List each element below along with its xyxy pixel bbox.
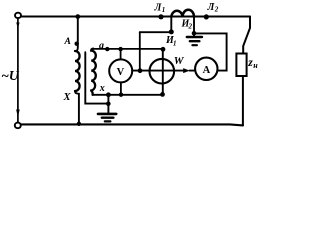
arrow current into ammeter (183, 68, 190, 73)
node A-feed junction on top wire (75, 14, 80, 19)
svg-text:2: 2 (214, 6, 219, 14)
svg-text:X: X (63, 92, 72, 103)
wire bottom horizontal (21, 124, 243, 125)
arrow current direction lower-left (16, 110, 20, 118)
node voltmeter bottom junction (119, 93, 123, 97)
node ground tee on x wire (106, 92, 111, 97)
node wattmeter current-left junction (138, 68, 143, 73)
node I2 junction dot (192, 31, 197, 36)
arrow current direction upper-left (16, 23, 19, 29)
node X bottom junction (77, 122, 81, 126)
transformer T1 secondary winding a-x (91, 49, 96, 95)
wire wattmeter current line inside (150, 70, 175, 72)
wire X lead to bottom wire (75, 91, 79, 124)
wire top horizontal (22, 15, 250, 17)
ground middle (98, 113, 116, 116)
wire x horizontal (93, 94, 163, 96)
wire I1 drop from CT (170, 17, 172, 32)
svg-text:н: н (253, 61, 258, 70)
wire I2 drop from CT (193, 17, 195, 37)
voltmeter PV1 (109, 59, 132, 82)
wire I1 vertical drop long (139, 32, 141, 70)
node I1 junction dot (169, 29, 174, 34)
wire voltmeter to wattmeter current line (132, 70, 183, 72)
wire A-feed vertical (75, 17, 78, 52)
wire I1 horizontal (140, 31, 172, 33)
transformer T1 core (85, 52, 106, 103)
svg-text:W: W (174, 55, 185, 67)
wire load to bottom (242, 76, 244, 125)
svg-text:V: V (117, 67, 125, 78)
wire ground stem middle (107, 95, 109, 113)
terminal top-left (15, 13, 21, 18)
ammeter PA1 (195, 58, 217, 80)
node wattmeter voltage terminal dot (161, 47, 166, 52)
ground CT (187, 36, 202, 38)
transformer T1 primary winding A-X (75, 51, 80, 91)
wire wattmeter voltage coil vertical (162, 49, 164, 94)
wire right-top corner to load (243, 17, 250, 54)
wire voltmeter top stub (120, 49, 122, 59)
wattmeter PW1 (150, 59, 175, 84)
svg-text:~U: ~U (1, 68, 20, 83)
svg-text:a: a (99, 41, 104, 52)
svg-text:1: 1 (162, 6, 166, 14)
current transformer TA primary humps (171, 10, 194, 17)
node L1 dot (158, 14, 163, 19)
node voltmeter top junction (118, 47, 122, 51)
wire left vertical (17, 19, 19, 123)
terminal bottom-left (15, 123, 21, 129)
wire arrow to ammeter (190, 70, 196, 72)
wire a horizontal (93, 48, 163, 50)
node terminal a dot (105, 47, 109, 51)
svg-text:A: A (64, 37, 71, 47)
svg-text:A: A (203, 65, 211, 76)
node terminal A dot (75, 42, 79, 46)
node wattmeter voltage bottom dot (160, 92, 165, 97)
wire voltmeter bottom stub (120, 82, 122, 94)
resistor Zн load (236, 54, 246, 77)
node core-ground junction (106, 102, 111, 107)
svg-text:1: 1 (173, 40, 177, 48)
svg-text:2: 2 (188, 23, 193, 31)
node L2 dot (204, 14, 209, 19)
svg-text:x: x (99, 83, 105, 94)
wire I2 to ammeter corner (194, 33, 227, 70)
